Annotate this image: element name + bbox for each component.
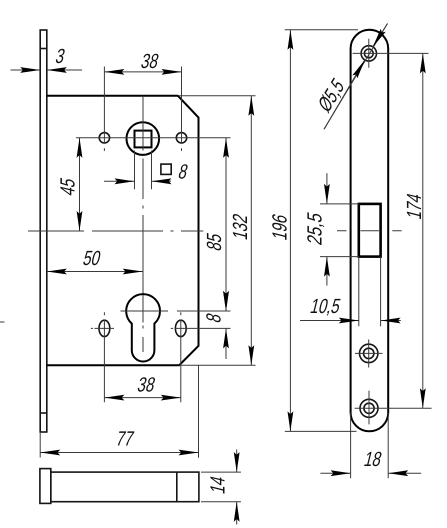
plate middle hole	[360, 344, 378, 362]
dimension 77	[40, 452, 198, 454]
holes horizontal centerline	[76, 137, 231, 139]
bottom view bar	[51, 472, 199, 502]
bottom view divider	[176, 472, 178, 502]
right hole vertical extension	[181, 67, 183, 152]
left oval center marks	[91, 312, 114, 402]
plate middle hole cross	[355, 340, 383, 368]
cylinder horizontal centerline	[121, 310, 231, 312]
faceplate bar (side view, left)	[40, 30, 47, 432]
plate bottom hole cross	[355, 391, 432, 425]
latch cutout	[359, 204, 381, 257]
left oval hole	[99, 320, 110, 336]
euro cylinder keyhole profile	[126, 294, 160, 361]
dimension 174	[422, 53, 424, 408]
plate bottom hole	[360, 399, 378, 417]
svg-text:25,5: 25,5	[304, 210, 327, 247]
dimension 45	[79, 138, 81, 231]
dimension 196	[289, 30, 291, 432]
left hole vertical extension	[103, 67, 105, 152]
bottom view cap	[40, 469, 51, 504]
handle axis centerline	[28, 230, 203, 232]
svg-text:10,5: 10,5	[308, 295, 343, 318]
spindle square 8mm	[135, 131, 152, 148]
dimension 132	[250, 96, 252, 365]
spindle vertical centerline	[142, 96, 144, 352]
latch cutout centerline	[337, 230, 402, 232]
dimension 38 top	[104, 71, 181, 73]
dimension 38 bottom	[104, 397, 180, 399]
strike plate outline	[351, 30, 389, 432]
dimension 25,5	[320, 204, 359, 257]
spindle circle	[127, 122, 160, 155]
plate top hole cross	[353, 39, 429, 68]
dimension 18	[351, 413, 389, 479]
leader diameter 5,5	[324, 24, 388, 130]
dimension 85	[225, 138, 227, 311]
faceplate bar bottom tick	[40, 412, 47, 414]
plate top hole	[361, 46, 376, 61]
dimension square 8	[104, 180, 135, 182]
left margin dash	[0, 321, 5, 323]
faceplate bar top tick	[40, 48, 47, 50]
square side extension lines	[135, 151, 152, 190]
dimension 8 right	[225, 292, 227, 311]
lock body outline	[47, 96, 199, 365]
right oval center marks	[171, 312, 231, 402]
top-left hole	[99, 133, 109, 143]
dimension 14	[201, 472, 241, 502]
dimension 10,5	[359, 257, 381, 327]
body bottom edge extension line	[179, 364, 255, 366]
body top edge extension line	[178, 95, 256, 97]
right oval hole	[175, 320, 186, 336]
dimension 50	[47, 271, 143, 273]
dimension 3	[11, 69, 41, 71]
top-right hole	[176, 133, 186, 143]
